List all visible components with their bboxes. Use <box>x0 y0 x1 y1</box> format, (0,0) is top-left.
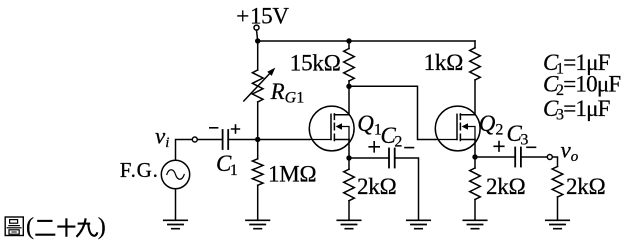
supply +15V terminal <box>254 25 259 30</box>
wire 1M to ground <box>257 185 259 220</box>
node Q1 source junction <box>346 155 351 160</box>
label 1MΩ <box>268 161 316 186</box>
label C3 <box>507 121 529 149</box>
ground 2k load <box>546 220 569 228</box>
resistor 2k load <box>552 167 563 198</box>
wire F.G. to ground <box>175 189 177 221</box>
resistor RG1 (variable) <box>244 68 275 102</box>
wire Q1 drain <box>348 86 350 114</box>
label C1 plus sign <box>232 125 240 133</box>
capacitor C3 <box>515 148 521 167</box>
wire node to 2k <box>348 158 350 169</box>
label Q2 <box>479 111 504 139</box>
svg-text:2kΩ: 2kΩ <box>357 174 397 199</box>
label 15kΩ <box>290 50 341 75</box>
wire gate node to Q1 <box>258 139 310 141</box>
svg-text:1MΩ: 1MΩ <box>268 161 316 186</box>
wire 2k Q2 to ground <box>474 200 476 221</box>
label vi <box>155 124 169 152</box>
label C2 <box>381 123 403 151</box>
wire vi terminal to C1 <box>197 139 222 141</box>
ground F.G. <box>164 220 187 228</box>
label C1=1uF <box>543 50 610 78</box>
svg-text:(: ( <box>26 214 34 240</box>
wire Q2 source node to C3 <box>475 156 515 158</box>
node rail-RG1 junction <box>255 38 260 43</box>
label 1kΩ <box>424 50 464 75</box>
capacitor C2 <box>389 149 395 168</box>
wire Q2 source to node <box>474 140 476 158</box>
transistor Q1 <box>309 106 354 151</box>
label C2=10uF <box>543 72 620 100</box>
label C3=1uF <box>543 96 610 124</box>
label +15V <box>236 3 289 28</box>
wire C2 to ground <box>395 158 419 220</box>
node Q1 drain junction <box>346 84 351 89</box>
node Q2 source junction <box>472 154 477 159</box>
label figure caption 圖(二十九) <box>5 214 106 240</box>
resistor 2k Q2 source <box>470 168 481 200</box>
resistor 1M <box>252 159 263 186</box>
wire interstage Q1 drain to Q2 gate <box>349 86 435 139</box>
wire 15k top stub <box>348 41 350 49</box>
wire 15k to drain node <box>348 81 350 86</box>
label vo <box>561 137 579 165</box>
label 2kΩ Q2 <box>486 174 526 199</box>
label C3 minus sign <box>527 146 536 148</box>
svg-text:2kΩ: 2kΩ <box>486 174 526 199</box>
capacitor C1 <box>223 130 229 149</box>
label 2kΩ load <box>566 174 606 199</box>
svg-text:2kΩ: 2kΩ <box>566 174 606 199</box>
wire +15V terminal to rail <box>257 30 258 41</box>
wire node to 2k Q2 <box>474 157 476 168</box>
ground 2k Q2 <box>463 220 486 228</box>
wire 1k to Q2 drain <box>474 80 476 115</box>
label 2kΩ Q1 <box>357 174 397 199</box>
wire gate node to 1M <box>257 140 259 159</box>
label Q1 <box>357 111 382 139</box>
transistor Q2 <box>435 106 480 151</box>
wire 2k to ground <box>348 201 350 221</box>
wire top rail <box>258 40 475 42</box>
source F.G. <box>161 160 189 188</box>
wire RG1 to gate node <box>257 102 259 140</box>
node vo terminal <box>547 155 552 160</box>
wire C1 to gate node <box>228 139 258 141</box>
node gate junction <box>255 137 260 142</box>
resistor 1k <box>470 48 481 80</box>
svg-text:F.G.: F.G. <box>120 158 159 182</box>
wire rail to RG1 <box>257 41 259 70</box>
wire Q1 source to node <box>348 140 350 159</box>
svg-text:1kΩ: 1kΩ <box>424 50 464 75</box>
node rail-15k junction <box>346 38 351 43</box>
label F.G. <box>120 158 159 182</box>
ground C2 <box>407 220 430 228</box>
wire 1k drop from rail <box>474 41 476 48</box>
svg-text:): ) <box>98 214 106 240</box>
label C2 minus sign <box>405 147 414 149</box>
wire Q1 source node to C2 <box>349 157 389 159</box>
wire F.G. to vi terminal <box>176 140 193 161</box>
svg-text:C3=1μF: C3=1μF <box>543 96 610 124</box>
label RG1 <box>270 79 305 107</box>
ground 2k Q1 <box>337 220 360 228</box>
label C1 <box>216 151 238 179</box>
wire 2k load to ground <box>557 197 559 220</box>
resistor 15k <box>344 49 355 82</box>
ground 1M <box>246 220 269 228</box>
resistor 2k Q1 source <box>344 169 355 201</box>
svg-text:+15V: +15V <box>236 3 289 28</box>
svg-text:15kΩ: 15kΩ <box>290 50 341 75</box>
label C2 plus sign <box>369 142 379 152</box>
wire vo terminal to load <box>552 157 557 167</box>
node vi terminal <box>192 137 197 142</box>
label C3 plus sign <box>494 142 504 152</box>
label C1 minus sign <box>210 127 218 129</box>
wire C3 to vo terminal <box>521 156 547 158</box>
